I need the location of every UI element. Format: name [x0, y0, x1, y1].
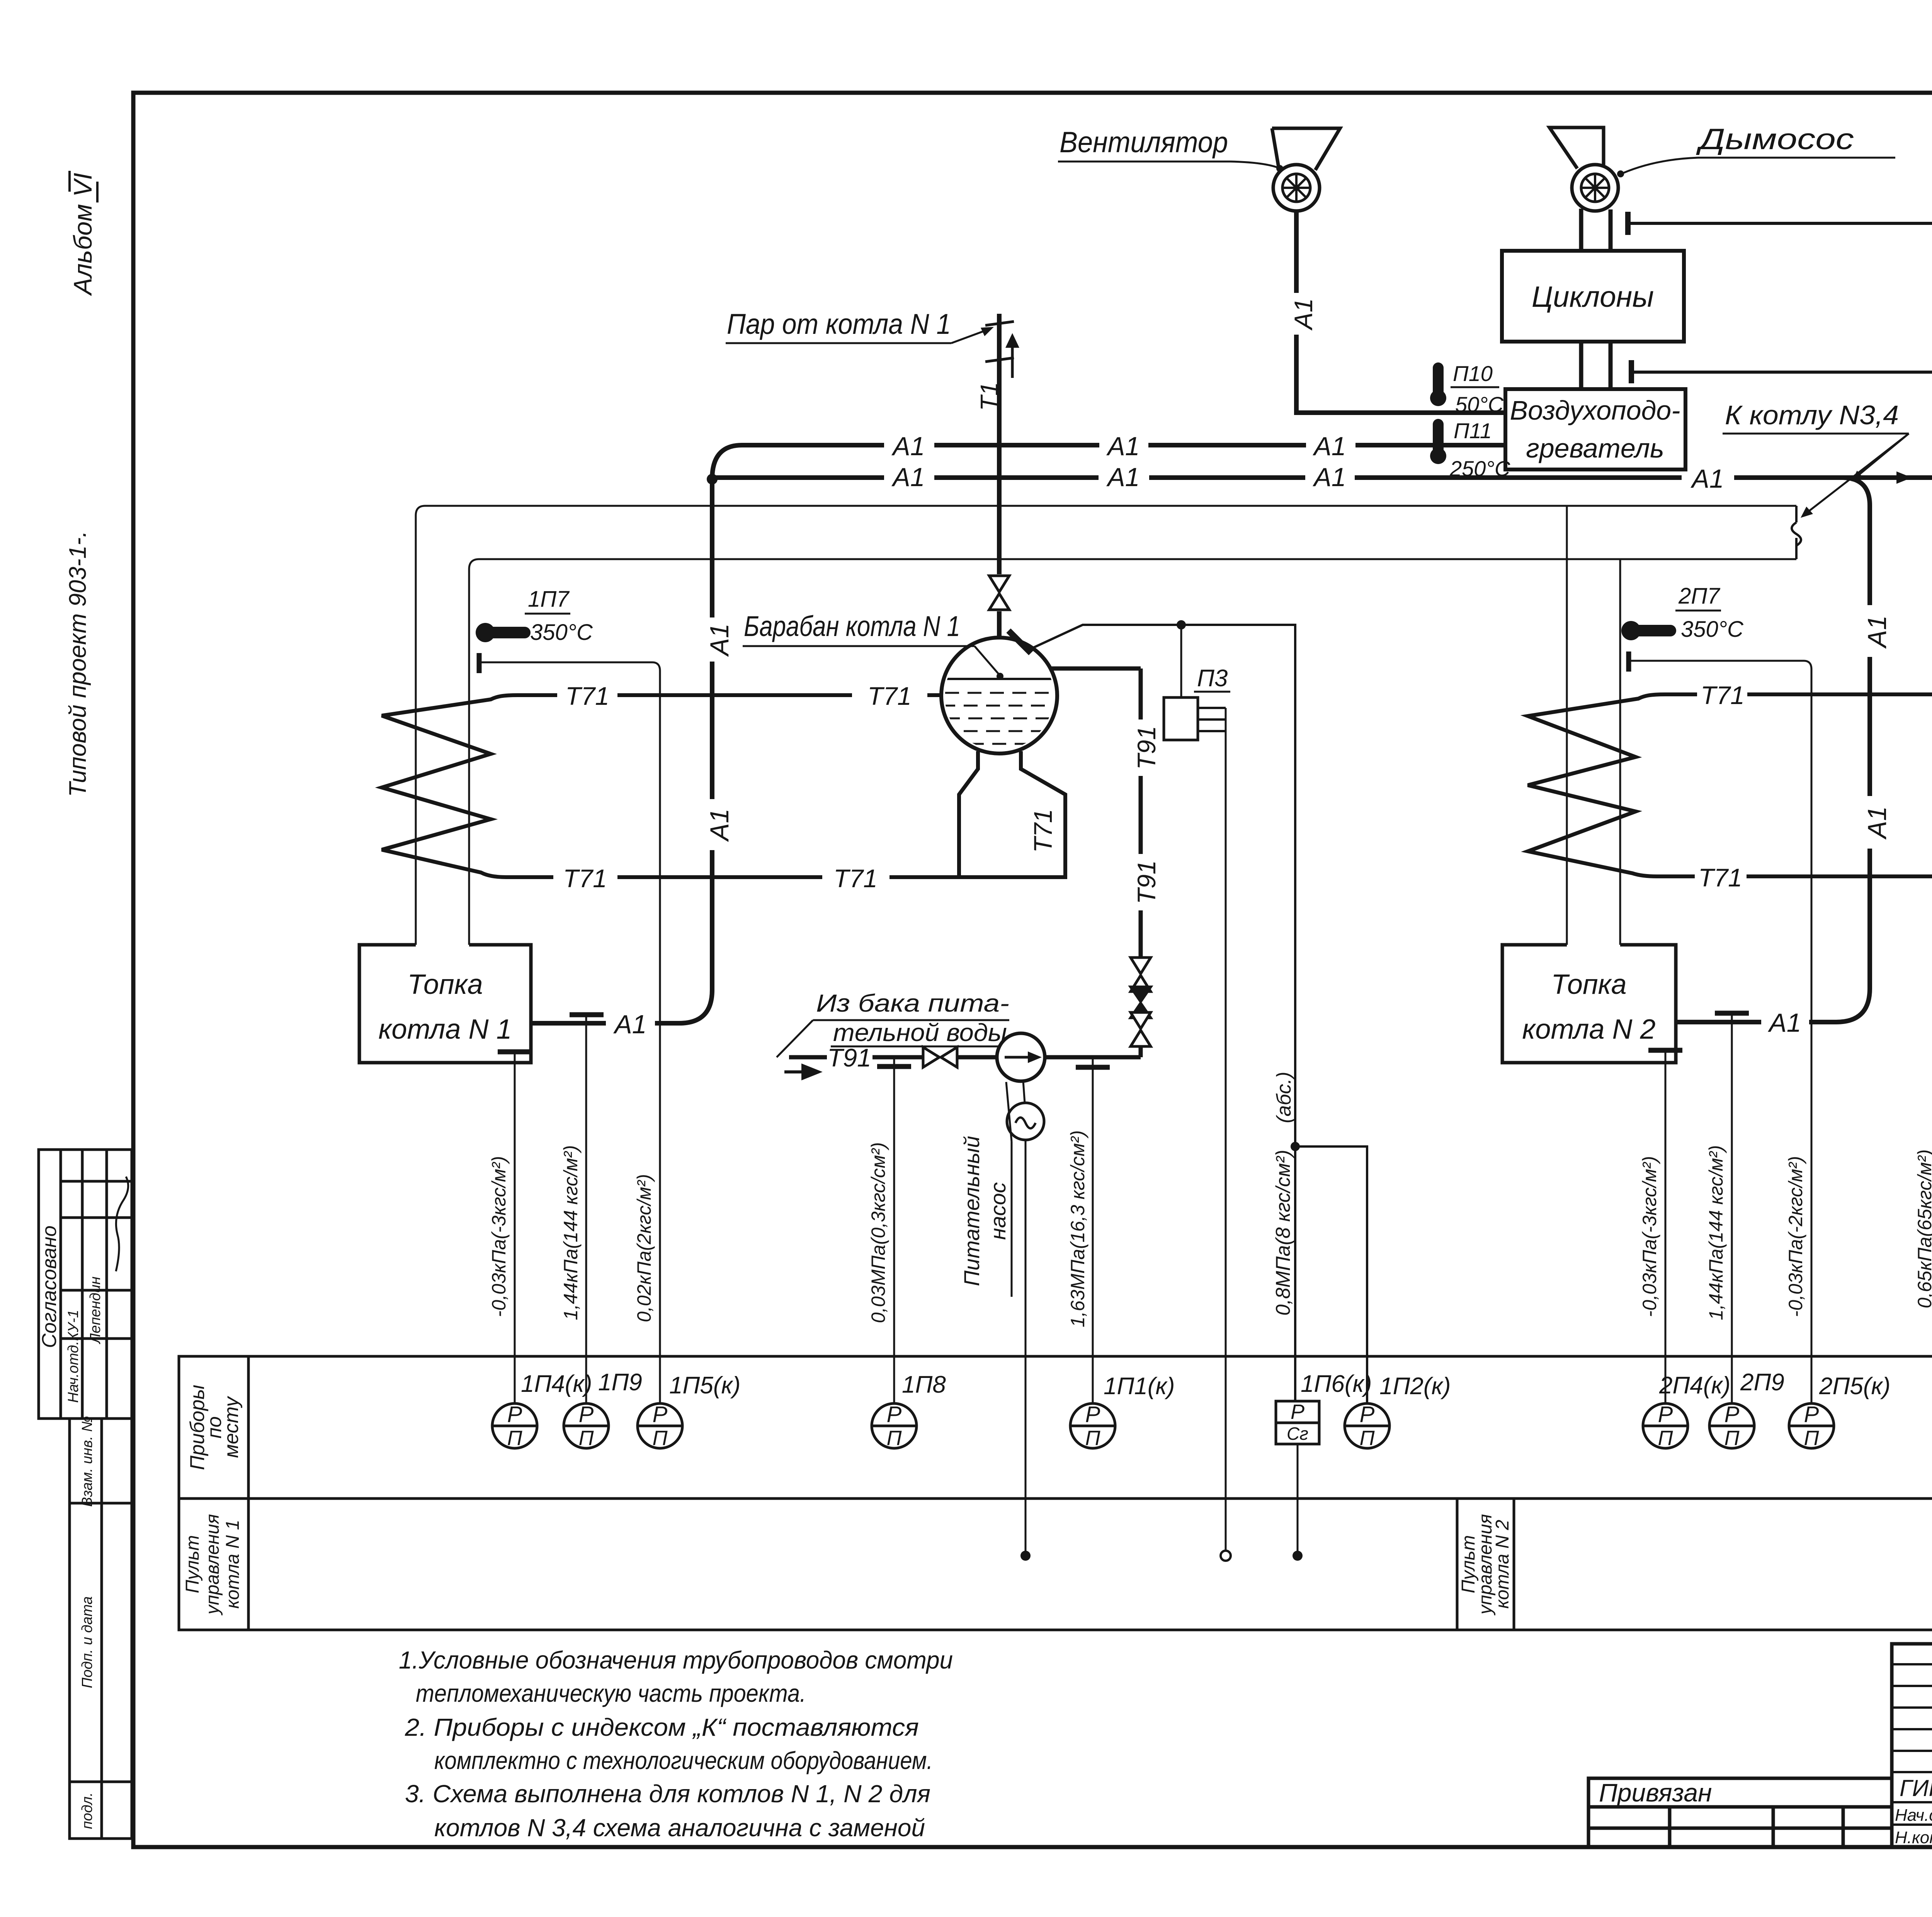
svg-text:тельной воды: тельной воды [833, 1019, 1007, 1046]
instrument 1П8 [872, 1402, 917, 1450]
downcomer bottle boiler 1 [959, 751, 1065, 877]
svg-text:2. Приборы с индексом „К“ п: 2. Приборы с индексом „К“ поставляются [405, 1713, 919, 1741]
wire: downcomer line T71 lower (boiler 1) [506, 875, 959, 879]
furnace box boiler 1 [359, 945, 531, 1063]
fan (Вентилятор) impeller [1273, 165, 1320, 211]
furnace 1 air tap flag [570, 1012, 604, 1017]
title block grid [1892, 1644, 1932, 1847]
instrument 1П5(к) [638, 1402, 682, 1450]
svg-text:Из бака пита-: Из бака пита- [816, 989, 1009, 1017]
П3 sensor box [1164, 697, 1198, 740]
svg-text:(абс.): (абс.) [1273, 1072, 1295, 1123]
svg-text:Р: Р [1291, 1400, 1304, 1424]
tap flag feed line right (1П1) [1076, 1065, 1110, 1070]
svg-text:Т71: Т71 [565, 682, 609, 710]
instrument 1П9 [564, 1402, 609, 1450]
thermometer 2П7 [1621, 621, 1641, 640]
svg-text:А1: А1 [613, 1010, 646, 1039]
svg-text:Т71: Т71 [867, 682, 912, 710]
svg-text:котла N 1: котла N 1 [378, 1014, 512, 1045]
thermometer 1П7 [476, 623, 495, 642]
svg-text:котла N 1: котла N 1 [223, 1520, 243, 1609]
feed pump boiler 1 [997, 1033, 1045, 1081]
П3 output leads [1198, 708, 1226, 731]
svg-text:тепломеханическую часть прое: тепломеханическую часть проекта. [416, 1679, 806, 1707]
svg-text:Нач.отд.КУ-1: Нач.отд.КУ-1 [65, 1310, 82, 1403]
steam valve above drum 1 [989, 576, 1009, 610]
steam flow arrow [1011, 345, 1014, 378]
check/gate valves on riser 1 [1131, 958, 1151, 992]
svg-text:Дымосос: Дымосос [1696, 123, 1854, 156]
connector lines 3-4 with break [1795, 506, 1798, 559]
wire: flue gas pressure line to П12 (right branch) [1629, 223, 1932, 1404]
svg-text:Н.контр: Н.контр [1895, 1828, 1932, 1847]
svg-text:А1: А1 [705, 623, 734, 657]
junction П3 tap [1177, 620, 1186, 629]
svg-text:А1: А1 [1289, 298, 1318, 331]
instrument 1П2(к) [1345, 1402, 1389, 1450]
furnace 1 draft tap flag [498, 1050, 532, 1055]
svg-text:Т91: Т91 [1132, 860, 1161, 904]
leader to bus 2 corner [1855, 434, 1909, 478]
feed valve boiler 1 [923, 1047, 957, 1067]
svg-text:А1: А1 [705, 808, 734, 842]
svg-text:Воздухоподо-: Воздухоподо- [1510, 395, 1680, 425]
svg-text:1П6(к): 1П6(к) [1301, 1371, 1372, 1397]
svg-text:А1: А1 [1106, 432, 1139, 461]
svg-text:Барабан котла N 1: Барабан котла N 1 [744, 610, 960, 642]
svg-text:Нач.отд: Нач.отд [1895, 1806, 1932, 1825]
svg-text:Питательный: Питательный [959, 1136, 984, 1286]
svg-text:А1: А1 [891, 463, 925, 492]
wire: flue duct exhauster to cyclones [1581, 209, 1611, 251]
smoke exhauster (Дымосос) housing [1549, 128, 1604, 168]
svg-text:Альбом VI: Альбом VI [68, 173, 97, 296]
svg-text:котлов N 3,4 схема аналогич: котлов N 3,4 схема аналогична с заменой [434, 1814, 925, 1842]
svg-text:котла N 2: котла N 2 [1492, 1520, 1513, 1609]
привязан strip [1588, 1778, 1892, 1847]
svg-text:Пульт: Пульт [182, 1535, 203, 1594]
svg-text:подл.: подл. [79, 1792, 95, 1829]
wire: motor 1 signal to panel [1025, 1140, 1027, 1556]
svg-text:0,8МПа(8 кгс/см²): 0,8МПа(8 кгс/см²) [1272, 1150, 1294, 1315]
title block outer [1892, 1644, 1932, 1847]
svg-text:0,03МПа(0,3кгс/см²): 0,03МПа(0,3кгс/см²) [867, 1142, 889, 1323]
wire: tap jog to 2П5(к) [1630, 661, 1811, 1403]
svg-text:Т71: Т71 [1029, 809, 1057, 853]
svg-text:Сг: Сг [1287, 1424, 1308, 1444]
instrument 2П4(к) [1643, 1402, 1688, 1450]
svg-text:ГИП: ГИП [1900, 1775, 1932, 1801]
svg-text:Вентилятор: Вентилятор [1060, 126, 1228, 159]
svg-text:управления: управления [202, 1514, 223, 1616]
svg-text:котла N 2: котла N 2 [1522, 1014, 1655, 1045]
svg-text:П11: П11 [1454, 418, 1492, 443]
pump 1 motor [1007, 1103, 1044, 1140]
steam pipe ticks [985, 321, 1014, 362]
instrument 2П5(к) [1789, 1402, 1834, 1450]
leader to lines 3,4 connector [1805, 434, 1909, 514]
svg-text:Лепендин: Лепендин [87, 1276, 104, 1344]
drum 1 level tap flag [1009, 631, 1031, 653]
svg-text:греватель: греватель [1526, 433, 1664, 463]
svg-text:Топка: Топка [1551, 969, 1626, 1000]
smoke exhauster (Дымосос) impeller [1572, 165, 1618, 211]
furnace box boiler 2 [1502, 945, 1676, 1063]
cyclones box [1502, 251, 1684, 342]
svg-text:А1: А1 [1767, 1008, 1801, 1038]
steam outlet pipe boiler 1 (Т1) [997, 314, 1002, 638]
svg-text:1П4(к): 1П4(к) [521, 1371, 592, 1397]
wire: П3 sensor drop [1180, 625, 1182, 697]
svg-text:К котлу N3,4: К котлу N3,4 [1725, 400, 1899, 430]
flow arrow on bus line 2 tail [1896, 471, 1912, 484]
superheater coil boiler 1 [382, 695, 518, 877]
wire: tap to 1П4(к) [514, 1052, 516, 1403]
svg-text:2П4(к): 2П4(к) [1659, 1372, 1730, 1399]
svg-text:0,02кПа(2кгс/м²): 0,02кПа(2кгс/м²) [633, 1174, 655, 1322]
svg-text:Т71: Т71 [563, 864, 607, 893]
svg-text:комплектно с технологическим: комплектно с технологическим оборудовани… [434, 1747, 933, 1774]
svg-text:0,65кПа(65кгс/м²): 0,65кПа(65кгс/м²) [1914, 1149, 1932, 1308]
svg-text:А1: А1 [891, 432, 925, 461]
wire: tap to 1П8 [893, 1057, 895, 1403]
tap flag on flue duct (lower) [1629, 360, 1634, 383]
wire: steam bus line 4 [469, 559, 1796, 945]
svg-text:1,44кПа(144 кгс/м²): 1,44кПа(144 кгс/м²) [1705, 1145, 1727, 1320]
wire: tap to 1П1(к) [1092, 1057, 1094, 1403]
wire: tap jog to 1П5(к) [481, 662, 660, 1403]
instrument band table [179, 1356, 1932, 1630]
svg-text:Т91: Т91 [1132, 726, 1161, 770]
wire: drum water line T71 upper (boiler 2) [1665, 692, 1932, 696]
fan (Вентилятор) housing [1272, 128, 1340, 174]
svg-text:1,63МПа(16,3 кгс/см²): 1,63МПа(16,3 кгс/см²) [1067, 1130, 1088, 1327]
wire: split to 1П6(к) [1294, 1146, 1296, 1401]
wire: A1 bus line 1 (to preheater) [531, 445, 1505, 1023]
left stamp block (Инв.№ подл.) [70, 1782, 132, 1839]
thermometer П10 [1433, 368, 1444, 393]
svg-text:1П8: 1П8 [902, 1371, 946, 1398]
wire: steam bus line 3 [416, 506, 1796, 945]
svg-text:-0,03кПа(-2кгс/м²): -0,03кПа(-2кгс/м²) [1785, 1156, 1806, 1317]
wire: flue gas pressure line to П12 (left branch) [1633, 372, 1932, 1404]
svg-text:Т71: Т71 [1701, 681, 1745, 709]
wire: feed riser Т91 boiler 1 [1049, 668, 1141, 1057]
wire: flue duct cyclones to air preheater [1581, 342, 1611, 389]
left stamp block (Подп. и дата) [70, 1503, 132, 1782]
furnace 2 draft tap flag [1648, 1048, 1682, 1053]
svg-text:Т1: Т1 [975, 382, 1003, 411]
wire: A1 bus line 2 [712, 478, 1932, 1022]
svg-text:Согласовано: Согласовано [38, 1225, 61, 1348]
svg-text:50°С: 50°С [1455, 392, 1504, 417]
stamp signature squiggle [116, 1177, 128, 1271]
thermometer П11 [1433, 424, 1444, 450]
left stamp block (Согласовано) [39, 1150, 132, 1419]
svg-text:-0,03кПа(-3кгс/м²): -0,03кПа(-3кгс/м²) [1639, 1156, 1660, 1317]
wire: 1П6(к) output to panel [1297, 1444, 1299, 1556]
svg-text:2П7: 2П7 [1678, 583, 1721, 609]
gas duct tap flag boiler 2 [1626, 651, 1631, 672]
svg-text:Взам. инв. №: Взам. инв. № [79, 1416, 95, 1507]
svg-text:П10: П10 [1453, 361, 1493, 386]
svg-text:-0,03кПа(-3кгс/м²): -0,03кПа(-3кгс/м²) [488, 1156, 510, 1317]
svg-text:1П2(к): 1П2(к) [1379, 1373, 1451, 1400]
furnace 2 air tap flag [1715, 1011, 1749, 1016]
svg-text:350°С: 350°С [530, 620, 593, 645]
svg-text:1П7: 1П7 [528, 587, 570, 612]
svg-text:А1: А1 [1862, 806, 1892, 840]
gas duct tap flag boiler 1 [477, 653, 482, 673]
svg-text:Циклоны: Циклоны [1532, 281, 1654, 313]
left stamp block (Взам. инв. №) [70, 1419, 132, 1503]
instrument 1П4(к) [492, 1402, 537, 1450]
svg-text:3. Схема выполнена для котл: 3. Схема выполнена для котлов N 1, N 2 д… [405, 1780, 930, 1808]
svg-text:А1: А1 [1106, 463, 1139, 492]
wire: drum water line T71 upper (boiler 1) [518, 693, 942, 697]
air preheater box [1505, 389, 1685, 469]
svg-text:1.Условные обозначения трубопр: 1.Условные обозначения трубопроводов смо… [399, 1646, 953, 1674]
wire: tap to 1П9 [585, 1015, 587, 1403]
svg-text:Т71: Т71 [833, 864, 878, 893]
instrument 1П6(к) recorder [1276, 1401, 1319, 1444]
tap flag feed line left (1П8) [877, 1064, 911, 1069]
superheater coil boiler 2 [1528, 694, 1665, 876]
svg-text:месту: месту [220, 1396, 243, 1458]
svg-text:1,44кПа(144 кгс/м²): 1,44кПа(144 кгс/м²) [560, 1145, 582, 1320]
svg-text:1П1(к): 1П1(к) [1104, 1373, 1175, 1400]
svg-text:1П9: 1П9 [598, 1369, 642, 1396]
svg-text:А1: А1 [1690, 464, 1724, 493]
instrument 1П1(к) [1070, 1402, 1115, 1450]
wire: fan air duct A1 down and to preheater [1296, 211, 1505, 413]
svg-text:350°С: 350°С [1681, 617, 1744, 642]
wire: pump 1 motor link [1023, 1081, 1025, 1103]
tap flag on flue duct (upper) [1625, 212, 1631, 235]
svg-text:Привязан: Привязан [1599, 1778, 1712, 1807]
wire: drum 1 pressure tap 0,8МПа [1032, 625, 1295, 1146]
wire: split to 1П2(к) [1295, 1146, 1367, 1403]
junction 0,8МПа split [1291, 1142, 1300, 1151]
wire: feedwater line boiler 1 [789, 1055, 1141, 1060]
svg-text:А1: А1 [1862, 615, 1892, 649]
wire: downcomer line T71 lower (boiler 2) [1657, 874, 1932, 878]
inlet arrows [784, 1066, 818, 1078]
instrument 2П9 [1709, 1402, 1754, 1450]
svg-text:А1: А1 [1312, 463, 1346, 492]
svg-text:А1: А1 [1312, 432, 1346, 461]
drum boiler 1 [941, 638, 1057, 754]
svg-text:2П5(к): 2П5(к) [1819, 1373, 1890, 1400]
svg-text:1П5(к): 1П5(к) [669, 1372, 740, 1399]
svg-text:Т91: Т91 [827, 1043, 871, 1072]
svg-text:Подп. и дата: Подп. и дата [79, 1596, 95, 1688]
junction on riser 1 [707, 474, 718, 485]
open terminal on panel row [1221, 1551, 1231, 1561]
wire: П3 signal line down to panel [1225, 708, 1227, 1556]
svg-text:Т71: Т71 [1698, 863, 1742, 892]
svg-text:насос: насос [986, 1182, 1010, 1240]
wire: tap to 2П9 [1731, 1013, 1733, 1403]
svg-text:Типовой проект 903-1-.: Типовой проект 903-1-. [65, 531, 91, 797]
svg-text:П3: П3 [1197, 665, 1228, 692]
svg-text:Топка: Топка [407, 969, 483, 1000]
svg-text:2П9: 2П9 [1740, 1369, 1784, 1396]
wire: tap to 2П4(к) [1665, 1050, 1667, 1403]
svg-text:Пар от котла N 1: Пар от котла N 1 [727, 308, 951, 340]
